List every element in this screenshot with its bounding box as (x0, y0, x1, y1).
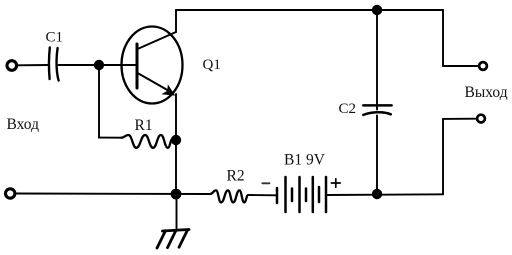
wire C2 lower (376, 116, 378, 195)
svg-text:R1: R1 (135, 117, 153, 134)
node B junction dot (171, 135, 181, 145)
output terminal upper (479, 62, 487, 70)
wire right branch upper vertical (442, 10, 444, 66)
wire base lead (99, 64, 136, 66)
input terminal upper (7, 61, 17, 71)
output terminal lower (477, 115, 485, 123)
node C junction dot (372, 5, 382, 15)
node A junction dot (94, 60, 104, 70)
svg-text:Выход: Выход (465, 84, 508, 101)
node D junction dot (171, 189, 182, 200)
wire top rail (176, 9, 443, 11)
wire C2 upper (376, 10, 378, 110)
wire R1 to node B (173, 138, 177, 141)
node E junction dot (372, 189, 382, 199)
capacitor C2 (363, 105, 391, 115)
svg-text:Вход: Вход (7, 116, 40, 133)
transistor Q1 base bar (136, 44, 139, 88)
wire right branch lower vertical (442, 119, 444, 194)
resistor R1 (122, 135, 173, 148)
transistor Q1 circle (122, 27, 183, 104)
wire ground stem (176, 194, 178, 230)
wire battery to right (326, 193, 443, 196)
svg-text:B1 9V: B1 9V (284, 152, 326, 169)
wire to R1 (99, 137, 122, 139)
wire to output terminal upper (443, 65, 479, 67)
wire input to C1 (17, 64, 49, 66)
wire collector up (175, 10, 177, 32)
svg-text:C2: C2 (339, 101, 357, 117)
battery B1 plates (277, 177, 326, 212)
svg-text:Q1: Q1 (203, 57, 221, 73)
wire C1 to node A (59, 64, 100, 66)
transistor Q1 emitter line (138, 73, 171, 92)
transistor Q1 emitter arrow (161, 84, 175, 95)
battery B1 plus sign (331, 179, 340, 187)
input terminal lower (6, 189, 15, 198)
wire node A down (98, 65, 100, 138)
wire emitter down (175, 94, 177, 194)
svg-text:C1: C1 (46, 30, 64, 46)
resistor R2 (210, 190, 248, 202)
battery B1 minus sign (262, 182, 269, 184)
ground (157, 230, 189, 249)
wire from output terminal lower (443, 118, 477, 120)
wire R2 to battery (248, 194, 276, 196)
capacitor C1 (49, 48, 59, 81)
transistor Q1 collector line (138, 32, 177, 49)
svg-text:R2: R2 (227, 168, 245, 185)
wire bottom rail left (16, 193, 211, 196)
